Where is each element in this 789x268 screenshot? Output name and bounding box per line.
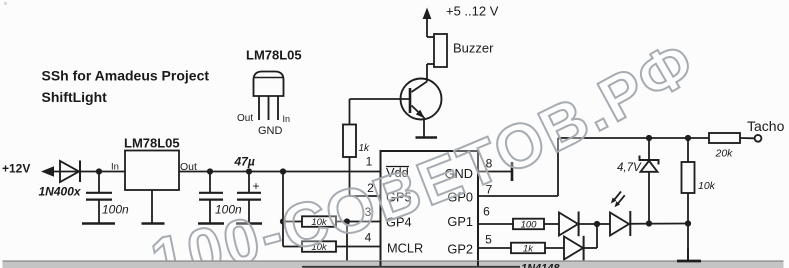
svg-text:10k: 10k xyxy=(698,180,716,192)
svg-text:+12V: +12V xyxy=(2,162,30,176)
title text xyxy=(42,68,210,106)
scan speck top-left corner xyxy=(4,2,7,5)
wire emitter to ground xyxy=(423,117,425,137)
resistor 10k (GP4 pull-up) xyxy=(302,216,336,228)
pin 8 GND label xyxy=(445,157,493,182)
svg-text:+5 ..12 V: +5 ..12 V xyxy=(446,4,499,19)
svg-text:In: In xyxy=(283,114,291,124)
diode D3 1N4148 xyxy=(564,236,584,261)
pin 6 GP1 label xyxy=(447,205,490,230)
node junction dot C2 xyxy=(207,168,213,174)
regulator U2 LM78L05 box xyxy=(111,136,197,191)
wire LED to ground net xyxy=(630,223,688,225)
wire +12V rail xyxy=(52,171,380,173)
wire 20k to terminal xyxy=(740,137,755,139)
node junction dot pin3 xyxy=(344,218,350,224)
wire D2 to node xyxy=(579,223,597,225)
node +5..12V supply arrow xyxy=(423,4,499,20)
resistor 20k xyxy=(709,133,740,160)
node +12V input arrow xyxy=(2,162,54,177)
svg-text:1k: 1k xyxy=(523,244,534,255)
wire base network xyxy=(350,99,410,196)
wire regulator ground xyxy=(151,190,153,223)
ground C2 xyxy=(198,222,224,225)
pin 3 GP4 label xyxy=(365,205,412,230)
resistor 10k (MCLR pull-up) xyxy=(302,241,336,253)
wire feed down to 10k resistors xyxy=(282,172,284,247)
IC U1 bottom edge over bar xyxy=(302,261,520,267)
svg-text:1k: 1k xyxy=(359,143,371,154)
svg-text:Out: Out xyxy=(237,113,253,124)
node junction dot 10k bottom xyxy=(685,220,691,226)
node junction dot C1 xyxy=(96,168,102,174)
svg-text:ShiftLight: ShiftLight xyxy=(42,89,108,105)
svg-text:In: In xyxy=(111,162,119,173)
wire node to LED xyxy=(597,223,610,225)
svg-text:4,7V: 4,7V xyxy=(617,162,642,174)
wire 10k to pin3 xyxy=(336,221,380,223)
ground regulator xyxy=(142,222,165,225)
regulator U3 LM78L05 TO-92 package drawing xyxy=(237,48,302,138)
svg-text:100: 100 xyxy=(521,220,538,231)
svg-text:GP1: GP1 xyxy=(447,214,473,229)
svg-text:6: 6 xyxy=(483,205,490,219)
svg-text:5: 5 xyxy=(485,233,492,247)
ground right (Tacho divider) xyxy=(677,248,701,261)
node junction dot LED anode xyxy=(594,221,600,227)
wire to R 10k upper xyxy=(283,221,302,223)
capacitor 100n C1 xyxy=(86,172,129,223)
ground C3 xyxy=(236,222,262,225)
ground emitter xyxy=(416,136,438,139)
svg-text:Buzzer: Buzzer xyxy=(453,41,494,56)
svg-text:GND: GND xyxy=(258,125,283,137)
node junction dot zener bottom xyxy=(646,220,652,226)
wire pin 6 row xyxy=(478,223,513,225)
pin 4 MCLR label xyxy=(365,231,424,256)
svg-text:1: 1 xyxy=(366,155,373,169)
svg-text:1N4148: 1N4148 xyxy=(521,263,560,268)
svg-text:1N400x: 1N400x xyxy=(39,185,82,199)
svg-text:20k: 20k xyxy=(715,148,734,160)
wire 1k to diode xyxy=(545,247,564,249)
wire collector to buzzer xyxy=(427,64,434,82)
zener diode 4.7V xyxy=(617,138,659,224)
node junction dot pull-up feed xyxy=(280,168,286,174)
diode D2 1N4148 xyxy=(559,212,579,237)
wire D3 up to node xyxy=(584,224,597,248)
wire pin 8 to ground xyxy=(478,171,511,173)
watermark grey banner bar xyxy=(3,260,784,268)
IC U1 PIC12F675 body xyxy=(381,151,479,267)
node junction dot 10k top xyxy=(685,135,691,141)
pin 5 GP2 label xyxy=(447,233,492,257)
transistor Q1 xyxy=(401,79,442,120)
svg-text:47µ: 47µ xyxy=(234,155,255,169)
svg-text:SSh for Amadeus Project: SSh for Amadeus Project xyxy=(42,68,210,84)
watermark 100-COBETOB.RF xyxy=(156,66,714,268)
capacitor 100n C2 xyxy=(199,172,242,223)
diode 1N400x xyxy=(39,161,82,199)
svg-text:LM78L05: LM78L05 xyxy=(124,136,180,151)
buzzer BZ1 xyxy=(434,34,494,67)
wire buzzer to supply arrow xyxy=(427,18,434,37)
node junction dot C3 xyxy=(246,168,252,174)
svg-text:+: + xyxy=(253,179,260,193)
wire 10k down to ground xyxy=(687,193,689,260)
wire pin 7 GP0 up to top rail xyxy=(478,138,709,196)
pin 2 GP5 label xyxy=(367,181,411,205)
wire 10k to pin4 xyxy=(336,246,380,248)
resistor 1k (GP2) xyxy=(511,243,545,255)
pin 1 Vdd label xyxy=(366,155,409,181)
svg-text:MCLR: MCLR xyxy=(387,241,423,256)
LED D4 xyxy=(610,192,630,237)
ground pin 8 (bar) xyxy=(511,162,514,181)
svg-text:Tacho: Tacho xyxy=(747,118,785,134)
svg-text:100n: 100n xyxy=(102,203,129,217)
resistor 100 xyxy=(513,219,544,231)
wire pin 5 row xyxy=(478,247,511,249)
wire down from pin3 node xyxy=(346,222,348,263)
ground C1 xyxy=(82,222,115,225)
wire to R 10k lower xyxy=(283,246,302,248)
svg-text:Out: Out xyxy=(180,161,197,173)
resistor 10k (Tacho divider, vertical) xyxy=(682,138,716,193)
node junction dot zener top xyxy=(646,135,652,141)
svg-text:LM78L05: LM78L05 xyxy=(246,48,302,63)
pin 7 GP0 label xyxy=(447,183,492,205)
node junction dot 10k row xyxy=(280,218,286,224)
node Tacho terminal xyxy=(747,118,785,142)
capacitor 47u C3 electrolytic xyxy=(234,155,262,223)
wire 100 to diode xyxy=(544,223,559,225)
svg-text:GP2: GP2 xyxy=(447,242,473,257)
resistor 1k base resistor (vertical) xyxy=(343,125,370,158)
